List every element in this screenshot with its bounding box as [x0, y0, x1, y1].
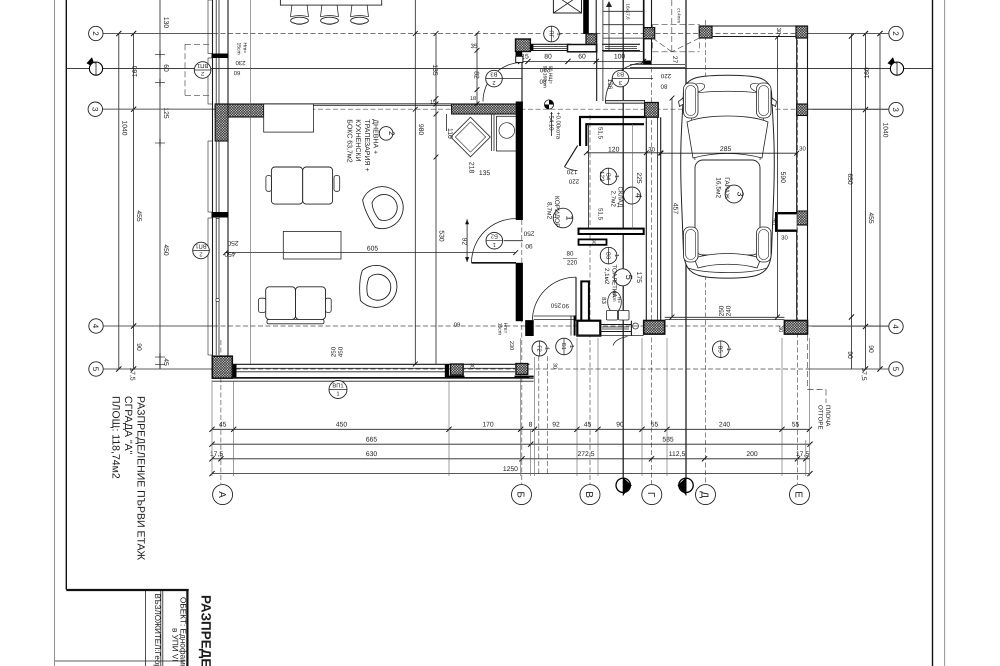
toilet south window	[600, 324, 631, 326]
svg-text:160: 160	[864, 67, 871, 79]
svg-text:225: 225	[635, 172, 642, 184]
axis V vertical dashed	[589, 115, 591, 484]
svg-text:457: 457	[672, 203, 679, 215]
marker B2-1 door	[486, 232, 503, 249]
svg-text:455: 455	[867, 212, 874, 224]
door living-corridor arc	[472, 219, 516, 263]
circle 4 left	[89, 319, 103, 333]
car tail	[688, 268, 767, 273]
svg-text:ПЛОЧА: ПЛОЧА	[824, 405, 831, 427]
window B3-3 in north wall	[602, 43, 640, 45]
stair right wall	[643, 0, 645, 65]
svg-text:2: 2	[387, 131, 396, 136]
kitchen fixtures	[447, 114, 518, 157]
garage door pier right hatched	[784, 321, 807, 335]
svg-text:16x17,6: 16x17,6	[626, 4, 631, 21]
axis 3 line	[102, 108, 216, 110]
dim row 3	[212, 458, 810, 460]
sklad left wall	[579, 116, 581, 146]
svg-text:530: 530	[438, 230, 445, 242]
svg-text:250: 250	[523, 230, 534, 237]
DIMENSIONS_TOP_ENTRY	[518, 54, 646, 64]
svg-text:": "	[895, 62, 897, 68]
circle V	[580, 485, 600, 505]
dining chair	[351, 5, 369, 17]
svg-text:1: 1	[493, 241, 496, 247]
svg-text:55: 55	[651, 422, 659, 429]
circle 2 right	[889, 26, 903, 40]
svg-text:РАЗПРЕДЕЛЕНИЕ: РАЗПРЕДЕЛЕНИЕ	[199, 595, 214, 666]
circle E	[790, 485, 810, 505]
svg-text:4: 4	[633, 193, 643, 198]
entry door threshold	[534, 315, 575, 317]
svg-text:136: 136	[606, 79, 613, 90]
svg-text:220: 220	[660, 72, 671, 79]
entry wall cap B	[525, 320, 534, 336]
svg-text:2: 2	[201, 70, 204, 77]
south wall stub east	[630, 321, 632, 336]
dim 980	[414, 0, 416, 364]
car mirrors	[679, 98, 684, 107]
svg-text:83: 83	[600, 297, 607, 304]
svg-text:60: 60	[233, 69, 240, 76]
TITLE_BLOCK	[55, 590, 214, 666]
door corridor-garage leaf	[606, 100, 645, 103]
extension lines bottom	[211, 380, 213, 476]
small arc below toilet window	[613, 337, 628, 346]
svg-text:55: 55	[792, 422, 800, 429]
axis G vertical dashed	[651, 45, 653, 484]
svg-text:240: 240	[726, 305, 733, 316]
svg-text:30: 30	[799, 146, 806, 153]
door sklad arc	[565, 167, 578, 171]
marker VP1-2 left	[193, 242, 210, 259]
benchmark line	[66, 68, 932, 70]
garage left wall upper	[698, 26, 700, 37]
svg-text:+54.10: +54.10	[548, 112, 555, 131]
axis 2 line	[103, 33, 213, 35]
dim col left inner	[159, 0, 161, 369]
svg-text:112,5: 112,5	[669, 451, 686, 458]
DASHED_OUTLINES	[185, 0, 826, 403]
svg-text:4: 4	[91, 324, 100, 329]
svg-text:220: 220	[567, 260, 578, 267]
bottom wall window band	[228, 363, 529, 365]
svg-text:1040: 1040	[882, 122, 889, 137]
dining chair	[291, 5, 309, 17]
svg-text:455: 455	[135, 210, 142, 222]
svg-text:ТРАПЕЗАРИЯ +: ТРАПЕЗАРИЯ +	[363, 119, 370, 171]
svg-text:590: 590	[779, 172, 786, 184]
shaft box with X	[553, 0, 581, 13]
svg-text:3: 3	[91, 107, 100, 112]
svg-text:450: 450	[338, 346, 345, 357]
svg-text:1: 1	[725, 348, 731, 351]
door toilet leaf	[575, 277, 577, 321]
svg-text:135: 135	[431, 64, 438, 76]
toilet west wall black	[581, 281, 589, 320]
svg-text:200: 200	[746, 451, 758, 458]
marker PG-1	[544, 26, 562, 42]
svg-text:30: 30	[775, 28, 782, 35]
window B3-2 in north wall	[530, 43, 571, 45]
svg-text:ГАРАЖ: ГАРАЖ	[723, 177, 730, 199]
svg-text:3: 3	[619, 79, 622, 86]
kitchen partition wall line	[264, 103, 452, 105]
svg-text:80: 80	[660, 83, 667, 90]
dim row 2	[212, 443, 810, 445]
garage width dim 285	[661, 152, 797, 154]
svg-text:КУХНЕНСКИ: КУХНЕНСКИ	[354, 119, 361, 161]
garage left wall	[645, 103, 647, 321]
svg-text:90 160cm: 90 160cm	[542, 66, 548, 88]
svg-text:51,5: 51,5	[597, 127, 604, 140]
svg-text:51,5: 51,5	[597, 208, 604, 221]
circle G	[642, 485, 662, 505]
svg-text:30: 30	[781, 235, 788, 242]
svg-text:15cm: 15cm	[497, 323, 503, 335]
svg-text:120: 120	[566, 168, 577, 175]
window hinge circles	[216, 215, 219, 218]
svg-text:в УПИ VI: в УПИ VI	[170, 628, 179, 662]
circle B	[512, 485, 532, 505]
svg-text:1: 1	[564, 215, 574, 220]
hatched pier L-shape kitchen	[215, 104, 264, 117]
canopy dashed entry	[653, 24, 700, 51]
svg-text:3: 3	[735, 191, 745, 196]
svg-text:45: 45	[219, 422, 227, 429]
svg-text:2: 2	[891, 31, 900, 36]
svg-text:17,5: 17,5	[128, 367, 135, 380]
marker B4	[600, 168, 619, 185]
svg-text:5: 5	[624, 275, 634, 280]
svg-text:Б: Б	[515, 491, 526, 498]
svg-text:15cm: 15cm	[236, 43, 242, 55]
svg-text:450: 450	[336, 422, 348, 429]
DIMENSIONS_LEFT	[103, 0, 212, 381]
marker G2	[532, 341, 550, 356]
svg-text:ВП1: ВП1	[195, 242, 206, 248]
svg-text:272,5: 272,5	[577, 451, 594, 458]
car rear window	[694, 254, 761, 269]
svg-text:122: 122	[598, 171, 605, 182]
dim row 1	[212, 428, 810, 430]
door kitchen-corridor leaf	[521, 63, 523, 102]
svg-text:5: 5	[891, 367, 900, 372]
garage length dim 590	[777, 37, 779, 317]
garage door pier left hatched	[644, 321, 665, 335]
svg-text:5: 5	[91, 367, 100, 372]
car headlights	[688, 82, 706, 95]
left wall faces	[212, 0, 214, 356]
svg-text:450: 450	[224, 250, 236, 257]
section marker 2	[677, 477, 693, 496]
svg-text:4: 4	[891, 324, 900, 329]
svg-text:90: 90	[846, 351, 853, 359]
svg-text:285: 285	[720, 146, 732, 153]
car wheels	[684, 83, 699, 118]
svg-text:90: 90	[135, 343, 142, 351]
door living-corridor leaf	[472, 262, 517, 264]
svg-text:90: 90	[525, 242, 533, 249]
living dim line 605	[226, 252, 516, 254]
stair treads	[603, 10, 644, 12]
corridor lobe west wall	[596, 52, 598, 101]
svg-text:92: 92	[461, 238, 468, 246]
corridor door dim 92	[466, 219, 468, 262]
svg-text:В5: В5	[717, 346, 723, 353]
svg-text:Г2: Г2	[535, 345, 542, 351]
svg-text:2: 2	[199, 251, 202, 258]
svg-text:120: 120	[608, 147, 620, 154]
elevation mark +0.00	[544, 100, 561, 140]
sofa 2	[266, 287, 296, 320]
svg-text:27: 27	[671, 56, 678, 64]
svg-text:1040: 1040	[121, 120, 128, 135]
svg-text:БОКС 63,7м2: БОКС 63,7м2	[346, 119, 353, 162]
axis B vertical dashed	[521, 100, 523, 484]
pier entry left hatched	[516, 39, 531, 52]
toilet fixture	[608, 292, 622, 313]
wall B lower segment	[516, 263, 523, 321]
sklad top wall	[579, 116, 645, 118]
axis 4 line	[103, 325, 213, 327]
garage niche	[776, 213, 797, 231]
AXIS_CIRCLES	[88, 26, 903, 504]
svg-text:ДНЕВНА +: ДНЕВНА +	[372, 119, 379, 154]
circle 5 left	[89, 362, 103, 376]
svg-text:100: 100	[614, 54, 626, 61]
room label 1 corridor	[553, 208, 573, 228]
svg-text:175: 175	[635, 272, 642, 284]
svg-text:250: 250	[331, 346, 338, 357]
room label 2 living	[379, 127, 393, 141]
axis A vertical dashed	[220, 340, 222, 484]
svg-text:2,7м2: 2,7м2	[610, 191, 617, 208]
DOORS	[472, 24, 645, 321]
svg-text:135: 135	[479, 170, 491, 177]
svg-text:50: 50	[771, 218, 778, 225]
car body	[681, 75, 775, 278]
section marker 1	[616, 477, 632, 496]
svg-text:170: 170	[482, 422, 494, 429]
svg-text:450: 450	[162, 244, 169, 256]
svg-text:35: 35	[471, 43, 478, 50]
svg-text:650: 650	[846, 173, 853, 185]
kitchen dim col	[435, 34, 437, 365]
svg-text:16,5м2: 16,5м2	[715, 177, 722, 198]
marker VP1-1 bottom	[329, 381, 347, 399]
AXIS_GRID	[66, 0, 932, 484]
circle D	[696, 485, 716, 505]
dim col right mid	[865, 34, 867, 370]
entry wall stub right	[574, 316, 576, 336]
section line 1	[622, 0, 624, 477]
room label 3 garage	[725, 185, 743, 203]
marker B3 toilet	[600, 247, 619, 264]
svg-text:": "	[94, 62, 96, 68]
circle 4 right	[889, 319, 903, 333]
svg-text:130: 130	[162, 17, 169, 29]
pier bottom mid1 hatched	[450, 364, 463, 375]
svg-text:1: 1	[568, 345, 574, 348]
sklad dim line 225	[632, 124, 634, 229]
garage top wall	[699, 25, 807, 27]
sklad 120-30 dim line	[586, 152, 660, 154]
axis E vertical dashed	[797, 40, 799, 484]
circle 3 right	[889, 102, 903, 116]
circle 3 left	[88, 102, 102, 116]
svg-text:18: 18	[470, 96, 476, 102]
svg-text:585: 585	[662, 436, 674, 443]
svg-text:2: 2	[492, 79, 495, 86]
svg-text:110: 110	[446, 128, 453, 139]
left wall mullion blocks	[212, 54, 229, 59]
circle A	[213, 485, 233, 505]
svg-text:А: А	[216, 491, 227, 498]
marker B1 entry door	[556, 338, 574, 355]
kitchen hatched wall band	[452, 104, 521, 114]
svg-text:ПЛОЩ: 118,74м2: ПЛОЩ: 118,74м2	[110, 396, 122, 479]
vestibule south wall	[568, 45, 597, 52]
dining table	[280, 0, 381, 5]
slab above leader	[808, 335, 827, 403]
svg-text:60: 60	[162, 64, 169, 72]
circle 2 left	[89, 26, 103, 40]
left wall windows	[208, 0, 213, 54]
svg-text:1: 1	[336, 392, 339, 398]
dim col 1040 left	[118, 34, 120, 370]
garage 457 dim	[671, 98, 673, 317]
DIMENSIONS_BOTTOM	[209, 338, 812, 476]
garage right wall	[807, 26, 809, 334]
svg-text:92: 92	[552, 422, 560, 429]
sklad bottom wall	[579, 229, 644, 234]
svg-text:60: 60	[578, 54, 586, 61]
dim col right inner	[851, 34, 853, 370]
svg-text:80: 80	[567, 251, 574, 258]
svg-text:КОРИДОР: КОРИДОР	[553, 196, 560, 228]
MARKERS	[193, 26, 731, 398]
svg-text:230: 230	[508, 341, 514, 350]
svg-text:2: 2	[91, 31, 100, 36]
svg-text:80: 80	[544, 54, 552, 61]
marker B5 garage door	[713, 341, 731, 358]
pier bottom mid2 hatched	[516, 364, 528, 375]
section line 2	[685, 0, 687, 477]
circle 5 right	[889, 362, 903, 376]
svg-text:1: 1	[613, 175, 619, 178]
garage door bottom	[665, 316, 785, 318]
pier corridor-garage hatched	[645, 103, 659, 118]
svg-text:82: 82	[473, 71, 480, 79]
marker VP1-2 upper left	[194, 62, 211, 79]
porch steps top	[630, 64, 685, 66]
entry dim row	[521, 60, 644, 62]
svg-text:218: 218	[468, 162, 475, 174]
svg-text:30: 30	[648, 147, 655, 154]
corridor stub wall	[579, 239, 607, 244]
car roof	[695, 160, 760, 255]
svg-text:ВП1: ВП1	[197, 62, 208, 68]
svg-text:Е: Е	[793, 491, 804, 498]
door toilet arc	[532, 277, 576, 321]
door kitchen-corridor arc	[483, 63, 522, 102]
svg-text:2,1м2: 2,1м2	[603, 268, 610, 285]
door corridor-garage arc	[606, 63, 645, 102]
svg-text:Б1: Б1	[560, 343, 566, 350]
svg-text:В3: В3	[490, 70, 497, 77]
svg-text:230: 230	[235, 59, 246, 66]
svg-text:250: 250	[227, 239, 239, 246]
dim col left mid	[133, 34, 135, 370]
kitchen dim col 2	[476, 34, 478, 104]
svg-text:240: 240	[719, 422, 731, 429]
door sklad leaf	[565, 146, 578, 167]
stair left wall	[595, 0, 597, 52]
svg-text:ВЪЗЛОЖИТЕЛ:Георги: ВЪЗЛОЖИТЕЛ:Георги	[153, 594, 162, 666]
svg-text:1: 1	[556, 32, 562, 35]
svg-text:160: 160	[132, 66, 139, 78]
marker B3-2	[486, 70, 503, 87]
marker B3-3	[612, 70, 629, 87]
vestibule east wall black	[583, 0, 589, 34]
svg-text:630: 630	[366, 451, 378, 458]
svg-text:60cm: 60cm	[612, 290, 617, 301]
outer sill lines bottom	[212, 378, 533, 380]
FURNITURE	[259, 0, 630, 324]
living zone line	[250, 0, 252, 364]
svg-text:РАЗПРЕДЕЛЕНИЕ ПЪРВИ ЕТАЖ: РАЗПРЕДЕЛЕНИЕ ПЪРВИ ЕТАЖ	[135, 396, 147, 561]
svg-text:СКЛАД: СКЛАД	[617, 187, 624, 208]
svg-text:ВП1: ВП1	[332, 383, 343, 389]
svg-text:605: 605	[367, 245, 379, 252]
car windshield	[687, 116, 768, 158]
sklad partition line	[588, 124, 590, 229]
svg-text:1: 1	[613, 254, 619, 257]
WALLS	[208, 0, 808, 381]
room label 4 sklad	[624, 187, 641, 204]
svg-text:В3: В3	[604, 252, 611, 259]
svg-text:90: 90	[562, 302, 569, 309]
svg-text:30: 30	[552, 363, 558, 369]
svg-text:ст.4mm: ст.4mm	[677, 8, 682, 23]
ROOM_LABELS	[346, 119, 746, 298]
wall B upper segment	[516, 56, 523, 62]
svg-text:ОТГОРЕ: ОТГОРЕ	[817, 405, 824, 430]
svg-text:250: 250	[550, 301, 561, 308]
dim row 4	[212, 473, 810, 475]
svg-text:15: 15	[430, 100, 436, 106]
svg-text:1250: 1250	[503, 466, 518, 473]
svg-text:45: 45	[584, 422, 592, 429]
coffee table	[283, 231, 341, 259]
kitchen counter rect	[264, 104, 314, 132]
CAR in garage	[679, 75, 777, 278]
svg-text:Г: Г	[645, 492, 656, 498]
svg-text:ПГ: ПГ	[547, 30, 553, 38]
svg-text:250: 250	[719, 305, 726, 316]
svg-text:8,7м2: 8,7м2	[546, 202, 553, 220]
svg-text:30: 30	[469, 363, 475, 369]
dim col right outer	[879, 34, 881, 370]
stair up arrow	[608, 2, 610, 50]
svg-text:8: 8	[529, 422, 533, 429]
room label 5 toilet	[614, 269, 631, 286]
svg-text:В: В	[583, 491, 594, 498]
svg-text:90: 90	[592, 239, 597, 245]
benchmark left	[87, 57, 103, 75]
